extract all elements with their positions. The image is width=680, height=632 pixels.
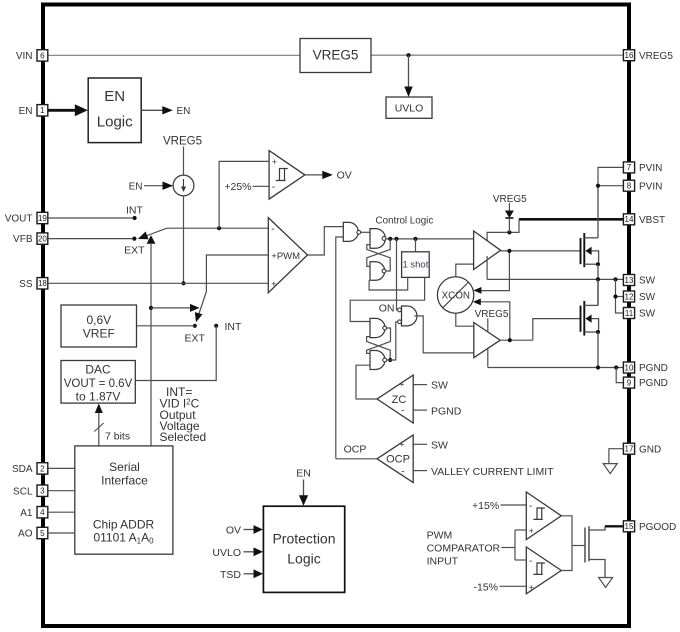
svg-text:EXT: EXT — [185, 332, 206, 344]
comparator PG upper — [526, 492, 561, 540]
svg-text:OV: OV — [226, 525, 241, 537]
node junction on INT feedback — [149, 306, 153, 310]
svg-text:10: 10 — [625, 363, 634, 372]
wire to OV comparator — [219, 161, 269, 228]
gate U5 latch2 top nand — [370, 318, 387, 337]
wire AO — [48, 532, 75, 534]
wire A1 — [48, 511, 75, 513]
node junction to OV comparator — [217, 226, 221, 230]
svg-text:DAC: DAC — [85, 362, 111, 376]
wire PG outputs bracket — [561, 516, 572, 571]
wire Q2 source to PGND — [597, 332, 599, 368]
wire VREG5 to current source — [183, 147, 185, 176]
wire VREG5 net to pin 16 — [371, 54, 623, 56]
wire UVLO to protection — [244, 551, 254, 553]
svg-text:+25%: +25% — [224, 181, 251, 193]
svg-text:VREG5: VREG5 — [475, 309, 509, 320]
node junction a — [388, 237, 392, 241]
svg-text:+: + — [529, 526, 534, 536]
wire OV output — [305, 174, 324, 176]
svg-text:Protection: Protection — [272, 531, 335, 547]
wire EN Logic output — [141, 109, 162, 111]
pin 18 SS — [19, 278, 48, 290]
wire pwm comp input bracket — [501, 547, 515, 549]
pin 12 SW — [623, 291, 655, 303]
wire error input to PWM comparator — [167, 227, 268, 229]
svg-text:6: 6 — [40, 51, 45, 60]
svg-text:EN: EN — [19, 106, 33, 117]
wire SDA — [48, 467, 75, 469]
wire driver output to high fet gate — [501, 250, 581, 252]
wire +15% to comparator — [501, 504, 527, 506]
bus slash 7 bits — [94, 423, 103, 432]
wire OCP feedback to gate U1 — [336, 237, 344, 459]
svg-text:SDA: SDA — [12, 464, 33, 475]
wire SW to pin 12 and 11 — [616, 279, 624, 313]
svg-text:18: 18 — [38, 279, 47, 288]
svg-text:5: 5 — [40, 529, 45, 538]
svg-text:01101 A1A0: 01101 A1A0 — [93, 531, 154, 546]
node junction b — [394, 237, 398, 241]
svg-text:7 bits: 7 bits — [105, 431, 130, 443]
wire low driver output to XCON — [478, 302, 510, 340]
svg-text:1: 1 — [40, 106, 45, 115]
svg-text:VIN: VIN — [16, 51, 33, 62]
pin 16 VREG5 — [623, 50, 673, 62]
pin 3 SCL — [13, 485, 48, 497]
svg-text:-: - — [401, 466, 404, 477]
pin 14 VBST — [623, 214, 665, 226]
node junction on SS net — [181, 281, 185, 285]
svg-text:Serial: Serial — [109, 460, 140, 474]
pin 8 PVIN — [623, 180, 662, 192]
driver U8 low side — [474, 323, 500, 358]
wire SCL — [48, 490, 75, 492]
pin 13 SW — [623, 275, 655, 287]
svg-text:COMPARATOR: COMPARATOR — [427, 542, 501, 554]
wire Q2 drain to SW — [597, 279, 599, 305]
svg-text:PGND: PGND — [639, 378, 668, 389]
wire Q1 drain to PVIN — [597, 186, 599, 238]
svg-text:2: 2 — [40, 464, 45, 473]
svg-text:TSD: TSD — [220, 569, 241, 581]
svg-text:11: 11 — [625, 309, 634, 318]
wire control to ON gate upper input — [397, 239, 398, 310]
gate U6 latch2 bottom nand — [370, 351, 387, 370]
wire pin 9 stub — [616, 368, 623, 383]
wire PG to Q3 gate — [572, 545, 585, 547]
svg-text:to 1.87V: to 1.87V — [76, 389, 121, 403]
svg-text:Control Logic: Control Logic — [376, 215, 434, 226]
diode D1 bootstrap — [505, 203, 514, 232]
gate U2 latch top nand — [370, 229, 386, 249]
transistor Q3 PGOOD open-drain — [585, 526, 605, 577]
svg-text:SW: SW — [639, 309, 656, 320]
svg-text:+15%: +15% — [472, 500, 499, 512]
wire VREF to S2 EXT contact — [137, 325, 195, 327]
svg-text:16: 16 — [625, 51, 634, 60]
node low driver output junction — [508, 338, 512, 342]
wire latch2 output to ON gate — [387, 359, 391, 361]
svg-text:INT: INT — [225, 321, 243, 333]
gate U4 on-gate — [398, 306, 417, 326]
wire ZC+ to SW — [413, 384, 427, 386]
transistor Q1 high-side NMOS — [581, 233, 601, 267]
svg-text:INPUT: INPUT — [427, 555, 459, 567]
wire OCP output — [336, 458, 377, 460]
block Serial Interface — [75, 446, 173, 554]
block Protection Logic — [263, 506, 344, 592]
svg-text:-15%: -15% — [473, 582, 498, 594]
svg-text:Logic: Logic — [97, 114, 133, 131]
wire -15% to comparator — [500, 585, 527, 587]
node junction c — [413, 237, 417, 241]
wire Q1 source to SW — [597, 264, 599, 305]
wire XCON to high driver — [456, 264, 474, 277]
svg-text:19: 19 — [38, 214, 47, 223]
wire 1 shot input — [415, 239, 417, 252]
node PVIN junction — [596, 184, 600, 188]
svg-text:VREG5: VREG5 — [493, 194, 527, 205]
svg-text:9: 9 — [627, 378, 632, 387]
wire +25% to OV comparator — [253, 185, 270, 187]
wire EN to current source — [144, 185, 163, 187]
switch S1 wiper (EXT select) — [146, 228, 167, 236]
driver U7 high side — [474, 231, 501, 270]
pin 15 PGOOD — [623, 521, 676, 533]
wire SS to PWM comparator — [48, 282, 268, 284]
svg-text:0,6V: 0,6V — [86, 313, 111, 327]
wire ZC output to latch2 — [356, 365, 377, 399]
pin 7 PVIN — [623, 162, 662, 174]
svg-text:20: 20 — [38, 235, 47, 244]
wire SW net — [487, 278, 623, 280]
block EN Logic — [88, 78, 141, 143]
pin 4 A1 — [20, 507, 48, 519]
svg-text:VREG5: VREG5 — [163, 135, 202, 147]
wire OV to protection — [244, 529, 254, 531]
block 0.6V VREF — [61, 305, 137, 347]
svg-text:ZC: ZC — [392, 394, 407, 406]
wire low driver output to Q2 gate — [500, 339, 533, 341]
pin 1 EN — [19, 105, 48, 117]
node INT sense point — [133, 216, 137, 220]
wire pin 12 stub — [616, 296, 624, 298]
node SW junction pins — [613, 277, 617, 281]
svg-text:SCL: SCL — [13, 486, 33, 497]
svg-text:UVLO: UVLO — [395, 103, 424, 115]
node VFB EXT contact — [132, 237, 136, 241]
comparator OCP — [377, 435, 413, 483]
node driver output junction — [507, 249, 511, 253]
svg-text:EN: EN — [177, 106, 191, 117]
wire VBST thick net — [519, 218, 623, 221]
svg-text:+: + — [529, 582, 534, 592]
pin 5 AO — [18, 527, 48, 539]
wire driver low rail to SW — [486, 256, 488, 279]
block DAC — [61, 361, 135, 404]
svg-text:17: 17 — [625, 445, 634, 454]
node PGND junction q2 — [596, 365, 600, 369]
wire OCP+ to SW — [413, 443, 427, 445]
node pin12 junction — [613, 294, 617, 298]
svg-text:VALLEY CURRENT LIMIT: VALLEY CURRENT LIMIT — [431, 466, 554, 478]
node VREG5 junction — [406, 53, 410, 57]
svg-text:EN: EN — [296, 468, 311, 480]
wire S2 common to PWM comparator — [206, 255, 268, 292]
wire VBST to driver supply — [487, 219, 519, 245]
svg-text:GND: GND — [639, 444, 661, 455]
svg-text:+: + — [272, 157, 277, 167]
svg-text:VFB: VFB — [13, 234, 33, 245]
svg-text:EN: EN — [129, 181, 143, 192]
wire low driver rail to PGND — [487, 349, 489, 368]
wire EN to Protection Logic — [303, 480, 305, 498]
wire VREG5 into low driver — [487, 319, 489, 333]
wire VREG5 to UVLO — [408, 55, 410, 89]
gate U1 nand — [343, 222, 360, 241]
svg-text:+PWM: +PWM — [271, 251, 300, 262]
svg-text:4: 4 — [40, 508, 45, 517]
svg-text:VREF: VREF — [83, 326, 115, 340]
svg-text:A1: A1 — [20, 508, 33, 519]
svg-text:VREG5: VREG5 — [313, 48, 359, 63]
svg-text:OCP: OCP — [386, 454, 410, 466]
wire DAC to INT contact — [135, 326, 216, 381]
ground symbol Q3 source — [599, 578, 613, 588]
wire latch2 cross-couple B — [367, 337, 391, 360]
svg-text:SW: SW — [639, 292, 656, 303]
svg-text:SW: SW — [431, 380, 448, 392]
block 1 shot — [402, 252, 430, 278]
svg-text:OCP: OCP — [344, 443, 367, 455]
svg-text:Logic: Logic — [287, 550, 320, 566]
node PGND junction pin9 — [614, 365, 618, 369]
svg-text:VOUT: VOUT — [5, 214, 33, 225]
pin 11 SW — [623, 308, 655, 320]
wire PVIN pin 7 stub — [598, 167, 623, 185]
block UVLO — [386, 97, 432, 118]
comparator ZC zero-cross — [377, 375, 413, 423]
comparator PG lower — [526, 547, 561, 594]
comparator OV detect — [269, 151, 305, 200]
svg-text:13: 13 — [625, 276, 634, 285]
svg-text:PVIN: PVIN — [639, 181, 662, 192]
svg-text:SW: SW — [431, 439, 448, 451]
node SW junction q1 — [596, 277, 600, 281]
node bootstrap junction — [507, 230, 511, 234]
svg-text:Chip ADDR: Chip ADDR — [93, 518, 155, 532]
pin 19 VOUT — [5, 212, 48, 224]
wire U1 output — [361, 231, 370, 233]
svg-text:PWM: PWM — [427, 529, 453, 541]
wire ON gate output to low side driver — [414, 316, 473, 353]
wire VOUT sense — [48, 217, 135, 219]
svg-text:EXT: EXT — [124, 245, 145, 257]
block VREG5 regulator — [300, 39, 371, 73]
svg-text:UVLO: UVLO — [212, 547, 241, 559]
note INT VID selection — [160, 385, 207, 444]
pin 10 PGND — [623, 362, 668, 374]
svg-text:INT: INT — [126, 204, 144, 216]
wire EN pin to EN Logic — [48, 109, 76, 112]
svg-text:EN: EN — [104, 88, 125, 105]
svg-text:Selected: Selected — [160, 430, 207, 444]
pin 6 VIN — [16, 50, 48, 62]
svg-text:Interface: Interface — [101, 473, 148, 487]
svg-text:7: 7 — [627, 163, 632, 172]
node INT contact — [214, 324, 218, 328]
note PWM comparator input — [427, 529, 501, 567]
block XCON cross-conduction control — [437, 277, 473, 313]
wire 1 shot output to latch U5 — [350, 277, 424, 321]
wire 1 shot output to latch U3 — [369, 277, 408, 290]
svg-text:12: 12 — [625, 292, 634, 301]
transistor Q2 low-side NMOS — [581, 301, 601, 336]
svg-text:-: - — [401, 406, 404, 417]
svg-text:-: - — [271, 224, 274, 235]
wire INT feedback vertical — [150, 243, 152, 446]
svg-text:VREG5: VREG5 — [639, 51, 673, 62]
comparator PWM — [268, 218, 307, 293]
wire PGND net — [488, 367, 624, 369]
svg-text:+: + — [399, 379, 404, 389]
pin 9 PGND — [623, 377, 668, 389]
svg-text:8: 8 — [627, 182, 632, 191]
svg-text:ON: ON — [379, 303, 395, 315]
pin 17 GND — [623, 443, 661, 455]
svg-text:SW: SW — [639, 276, 656, 287]
svg-text:14: 14 — [625, 215, 634, 224]
svg-text:-: - — [529, 501, 532, 512]
svg-text:15: 15 — [625, 522, 634, 531]
svg-text:VOUT = 0.6V: VOUT = 0.6V — [64, 378, 133, 390]
switch S2 wiper — [199, 292, 207, 316]
wire PWM output to control logic — [308, 227, 344, 255]
wire current source to SS net — [183, 196, 185, 283]
wire 7-bit bus Serial Interface to DAC — [98, 412, 100, 446]
pin 2 SDA — [12, 463, 48, 475]
svg-text:SS: SS — [19, 279, 33, 290]
svg-text:1 shot: 1 shot — [402, 260, 428, 271]
wire U2 output to driver — [386, 238, 474, 240]
svg-text:OV: OV — [337, 170, 352, 182]
wire latch2 cross-couple A — [367, 328, 391, 353]
svg-text:VBST: VBST — [639, 215, 665, 226]
wire VFB — [48, 238, 135, 240]
svg-text:3: 3 — [40, 487, 45, 496]
pin 20 VFB — [13, 233, 48, 245]
wire PVIN pin 8 stub — [598, 185, 623, 187]
wire S2 throw 1 — [151, 307, 193, 309]
wire ZC- to PGND — [413, 409, 427, 411]
wire latch cross-couple A — [367, 239, 390, 267]
wire XCON to low driver — [456, 313, 474, 326]
svg-text:PGOOD: PGOOD — [639, 522, 676, 533]
wire high driver output to XCON — [478, 251, 509, 291]
svg-text:PVIN: PVIN — [639, 163, 662, 174]
svg-text:PGND: PGND — [431, 405, 462, 417]
wire TSD to protection — [244, 573, 254, 575]
ground symbol GND — [603, 464, 617, 474]
wire GND stub — [609, 449, 623, 464]
svg-text:PGND: PGND — [639, 363, 668, 374]
wire latch cross-couple B — [367, 245, 390, 271]
node EXT contact of S2 — [193, 324, 197, 328]
node latch2 output junction — [388, 358, 392, 362]
svg-text:XCON: XCON — [442, 291, 470, 302]
wire OCP- to valley limit — [413, 470, 427, 472]
svg-text:-: - — [272, 182, 275, 193]
wire VIN net — [48, 54, 300, 56]
wire PGOOD to pin 15 — [605, 525, 623, 527]
current source I1 — [173, 175, 194, 196]
svg-text:-: - — [529, 556, 532, 567]
gate U3 latch bottom nand — [370, 262, 386, 281]
svg-text:+: + — [271, 279, 276, 289]
svg-text:AO: AO — [18, 529, 33, 540]
switch S1 INT contact arrow — [147, 235, 156, 244]
svg-text:+: + — [399, 439, 404, 449]
